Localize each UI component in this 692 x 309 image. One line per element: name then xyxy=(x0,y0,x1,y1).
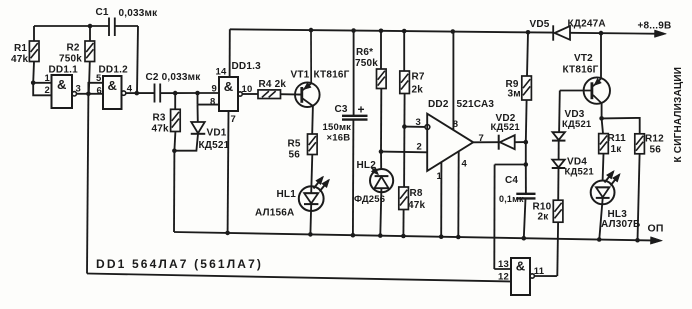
svg-text:HL1: HL1 xyxy=(277,189,297,200)
svg-text:56: 56 xyxy=(289,149,301,160)
svg-text:R4 2k: R4 2k xyxy=(259,79,287,90)
svg-text:DD1.3: DD1.3 xyxy=(232,61,262,72)
svg-text:11: 11 xyxy=(534,266,545,277)
svg-text:DD1.1: DD1.1 xyxy=(49,64,79,75)
svg-text:12: 12 xyxy=(498,272,509,283)
svg-text:VD1: VD1 xyxy=(207,128,227,139)
svg-text:+: + xyxy=(358,103,365,117)
svg-text:4: 4 xyxy=(462,158,468,169)
svg-text:2k: 2k xyxy=(412,85,424,96)
svg-text:R3: R3 xyxy=(153,112,166,123)
svg-text:7: 7 xyxy=(479,133,484,144)
svg-text:R6*: R6* xyxy=(356,47,373,58)
svg-text:3: 3 xyxy=(76,84,81,95)
svg-text:14: 14 xyxy=(216,67,227,78)
svg-text:КТ816Г: КТ816Г xyxy=(563,64,599,75)
svg-text:47k: 47k xyxy=(11,54,29,65)
svg-text:9: 9 xyxy=(212,83,217,94)
svg-text:×16В: ×16В xyxy=(327,132,351,143)
svg-text:C3: C3 xyxy=(335,104,348,115)
svg-text:56: 56 xyxy=(650,145,662,156)
svg-text:1к: 1к xyxy=(611,144,623,155)
svg-text:47k: 47k xyxy=(152,123,170,134)
svg-text:8: 8 xyxy=(210,96,215,107)
svg-text:1: 1 xyxy=(45,73,51,84)
svg-text:DD1 564ЛА7 (561ЛА7): DD1 564ЛА7 (561ЛА7) xyxy=(96,257,263,271)
svg-text:4: 4 xyxy=(127,84,133,95)
svg-text:HL2: HL2 xyxy=(357,160,377,171)
svg-text:АЛ156А: АЛ156А xyxy=(255,208,294,219)
svg-text:3: 3 xyxy=(416,117,421,128)
svg-text:13: 13 xyxy=(498,259,509,270)
svg-text:R12: R12 xyxy=(645,134,664,145)
svg-text:1: 1 xyxy=(437,171,443,182)
svg-text:КТ816Г: КТ816Г xyxy=(314,70,350,81)
svg-text:КД247А: КД247А xyxy=(568,18,606,29)
svg-text:R7: R7 xyxy=(412,72,425,83)
svg-text:C2 0,033мк: C2 0,033мк xyxy=(146,72,202,83)
svg-text:КД521: КД521 xyxy=(491,122,521,133)
svg-text:КД521: КД521 xyxy=(199,140,230,151)
svg-text:2: 2 xyxy=(417,141,422,152)
svg-text:2: 2 xyxy=(45,85,50,96)
svg-text:ФД256: ФД256 xyxy=(354,194,385,205)
svg-text:VD5: VD5 xyxy=(530,19,550,30)
svg-text:47k: 47k xyxy=(408,200,426,211)
svg-text:3м: 3м xyxy=(508,88,521,99)
svg-text:7: 7 xyxy=(231,114,236,125)
svg-text:C1: C1 xyxy=(96,7,109,18)
svg-text:VT1: VT1 xyxy=(291,70,310,81)
svg-text:&: & xyxy=(516,259,525,274)
svg-text:ОП: ОП xyxy=(648,223,664,235)
svg-text:0,1мк: 0,1мк xyxy=(499,194,524,204)
svg-text:АЛ307Б: АЛ307Б xyxy=(601,219,640,230)
svg-text:521СА3: 521СА3 xyxy=(457,99,495,110)
svg-text:6: 6 xyxy=(97,86,102,97)
svg-text:R11: R11 xyxy=(608,133,627,144)
svg-text:&: & xyxy=(108,78,117,93)
svg-text:DD1.2: DD1.2 xyxy=(99,64,129,75)
svg-text:0,033мк: 0,033мк xyxy=(119,8,159,19)
svg-text:R5: R5 xyxy=(288,138,301,149)
svg-text:C4: C4 xyxy=(505,175,518,186)
svg-text:750k: 750k xyxy=(59,54,82,65)
svg-text:R2: R2 xyxy=(67,43,80,54)
svg-text:8: 8 xyxy=(453,119,458,130)
svg-text:150мк: 150мк xyxy=(323,122,352,133)
svg-text:R1: R1 xyxy=(14,43,27,54)
svg-text:&: & xyxy=(57,77,66,92)
svg-text:750k: 750k xyxy=(355,58,378,69)
svg-text:КД521: КД521 xyxy=(562,119,592,130)
svg-text:+8...9В: +8...9В xyxy=(638,21,672,32)
svg-text:КД521: КД521 xyxy=(565,166,595,177)
svg-text:R8: R8 xyxy=(410,188,423,199)
svg-text:5: 5 xyxy=(96,73,102,84)
svg-text:VT2: VT2 xyxy=(574,53,593,64)
svg-text:DD2: DD2 xyxy=(428,99,449,110)
svg-text:К СИГНАЛИЗАЦИИ: К СИГНАЛИЗАЦИИ xyxy=(673,67,684,163)
svg-text:&: & xyxy=(224,79,233,94)
svg-text:2к: 2к xyxy=(538,211,550,222)
svg-text:10: 10 xyxy=(242,84,253,95)
